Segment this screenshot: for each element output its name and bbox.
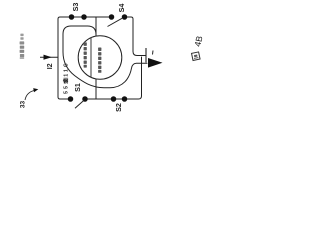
node: switch S2 terminal left	[111, 96, 117, 102]
blower B circle	[78, 36, 122, 80]
leader arrow for 33	[25, 91, 34, 101]
inlet wire from left	[40, 56, 58, 58]
svg-text:S3: S3	[71, 3, 80, 12]
node: switch S3 terminal left	[69, 14, 75, 20]
svg-text:S2: S2	[114, 103, 123, 112]
flange bar at outlet	[145, 48, 147, 63]
svg-text:S4: S4	[117, 4, 126, 13]
wire outer bottom (right of S1)	[85, 57, 142, 99]
svg-text:55或11C: 55或11C	[63, 61, 70, 94]
wire outer top-right segment	[125, 17, 147, 56]
node: switch S4 terminal left	[109, 14, 115, 20]
node: switch S4 terminal right	[122, 14, 128, 20]
svg-text:33: 33	[19, 101, 26, 109]
svg-text:S1: S1	[73, 83, 82, 92]
blower text column left	[84, 42, 87, 67]
wire outer top-left segment	[58, 17, 112, 21]
blower text column right	[98, 48, 101, 73]
node: switch S2 terminal right	[122, 96, 128, 102]
wire outer left side	[57, 19, 59, 97]
wire outer bottom (left of S1)	[58, 97, 71, 99]
volute / bypass pipe around blower	[63, 26, 147, 88]
node: switch S3 terminal right	[81, 14, 87, 20]
label 来自增压器4-5	[20, 34, 25, 59]
tick label 17	[152, 51, 155, 55]
inlet flow arrow I2	[44, 55, 52, 60]
label 图4B : hanzi drawn	[192, 52, 201, 61]
wire vertical from blower to bottom	[95, 78, 97, 99]
node: switch S1 terminal left	[68, 96, 74, 102]
switch S1 open blade	[75, 100, 84, 108]
node: switch S1 terminal right	[82, 96, 88, 102]
wire vertical from top into blower	[95, 17, 97, 37]
blower inner vertical line	[90, 38, 92, 77]
svg-text:I2: I2	[47, 63, 54, 69]
outlet flow arrow	[148, 58, 163, 68]
label 55或11C dense char fill	[64, 78, 69, 83]
switch S4 open blade	[108, 18, 123, 26]
